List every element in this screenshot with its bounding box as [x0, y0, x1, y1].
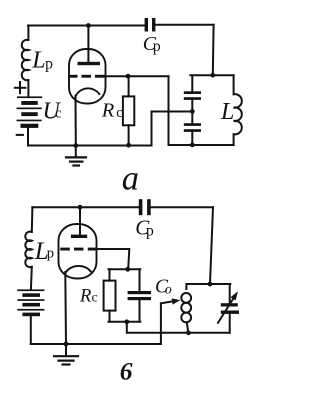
variable capacitor C6 b leads: [229, 284, 231, 333]
wire tank top b: [187, 283, 231, 285]
wire top rail a right: [155, 24, 213, 26]
inductor L1 (Lp) a: [22, 40, 29, 80]
battery U1 minus sign: [16, 134, 24, 136]
svg-text:c: c: [92, 291, 98, 306]
node tank bottom junction a: [190, 143, 195, 148]
wire coil to battery a: [27, 80, 29, 96]
node anode rail junction a: [86, 23, 91, 28]
node capacitor midpoint a: [191, 100, 193, 112]
wire cathode lead b: [64, 272, 67, 344]
tube V2 cathode arc b: [65, 266, 91, 273]
resistor R1 (Rc) a leads: [128, 76, 130, 145]
svg-text:L: L: [31, 48, 45, 74]
battery U1 (Uc) plus sign: [15, 82, 26, 93]
resistor R2 (Rc) b body: [104, 281, 116, 311]
inductor L3 (Lp) b: [25, 232, 31, 268]
wire top rail b: [32, 206, 138, 208]
inductor L2 (L) tank a: [234, 75, 242, 145]
wire grid drop to tank bottom a: [169, 76, 234, 145]
inductor L4 bottom stub b: [187, 322, 189, 333]
node grid junction a: [126, 74, 131, 79]
tube V1 anode bar a: [78, 62, 101, 65]
resistor R1 (Rc) a body: [123, 96, 134, 125]
tube V2 anode bar b: [71, 235, 87, 238]
node ground junction b: [64, 342, 69, 347]
battery U1 (Uc) plates: [17, 96, 43, 127]
wire bottom rail left a: [28, 145, 152, 147]
svg-text:R: R: [101, 99, 115, 121]
wire right drop a: [212, 25, 215, 75]
node RC bottom junction b: [124, 319, 129, 324]
inductor L4 tank coil b stub: [185, 284, 187, 289]
ground a: [75, 146, 77, 158]
svg-text:p: p: [146, 223, 154, 240]
wire RC top connector b: [109, 268, 141, 270]
wire tap arrow shaft b: [161, 301, 176, 304]
capacitor C5 (Co) b: [139, 269, 141, 322]
node tank top junction a: [210, 73, 215, 78]
wire battery to bottom rail a: [27, 128, 29, 146]
tube V2 grid dashes b: [60, 248, 97, 251]
tube V1 anode lead a: [87, 26, 89, 62]
inductor L4 tank coil b turns: [181, 293, 191, 303]
svg-text:6: 6: [120, 357, 133, 386]
wire top rail a: [28, 25, 145, 27]
tube V2 envelope b: [59, 224, 97, 279]
battery U2 plates b: [17, 289, 44, 316]
tube V1 envelope a: [69, 49, 106, 104]
node tank bottom junction b: [186, 330, 191, 335]
svg-text:R: R: [79, 286, 91, 306]
arrow head tap b: [172, 298, 181, 304]
capacitor C4 (Cp) coupling b: [139, 199, 151, 215]
wire grid to node a: [105, 75, 169, 77]
capacitor C3 tank lower a: [191, 112, 193, 124]
capacitor C1 (Cp) coupling a: [145, 18, 156, 32]
wire cathode lead a: [75, 96, 77, 146]
wire tank top a: [190, 74, 233, 76]
svg-text:L: L: [220, 99, 234, 125]
wire RC bottom connector b: [109, 321, 141, 323]
capacitor C2 tank upper a: [191, 75, 193, 91]
node anode rail junction b: [78, 205, 83, 210]
svg-text:o: o: [165, 283, 172, 298]
svg-text:c: c: [116, 105, 122, 121]
variable capacitor C6 b plates: [221, 303, 239, 314]
wire left rail top a: [27, 26, 29, 41]
wire left rail top b: [31, 207, 34, 232]
wire cathode tap riser b: [160, 303, 162, 344]
variable capacitor C6 b arrow: [218, 297, 234, 323]
node cathode ground junction a: [73, 143, 78, 148]
svg-text:a: a: [122, 160, 139, 198]
node resistor bottom a: [126, 143, 131, 148]
wire top rail b right: [151, 206, 213, 208]
tube V1 grid dashes a: [68, 75, 105, 78]
ground b: [65, 344, 67, 356]
tube V1 cathode arc a: [76, 88, 100, 96]
node tank top junction b: [208, 282, 213, 287]
wire battery to bottom rail b: [30, 316, 32, 344]
wire jog up to capacitor midpoint a: [152, 112, 193, 146]
resistor R2 (Rc) b leads: [109, 269, 111, 322]
svg-text:p: p: [47, 246, 54, 262]
wire coil to battery b: [30, 267, 33, 290]
wire bottom rail b: [31, 343, 161, 345]
wire RC bottom to tank bottom b: [127, 322, 230, 333]
svg-text:p: p: [45, 55, 53, 72]
tube V2 anode lead b: [79, 207, 81, 234]
svg-text:p: p: [153, 38, 161, 55]
wire right drop b: [210, 207, 213, 284]
wire grid to node b: [97, 249, 129, 269]
node grid RC junction b: [125, 267, 130, 272]
svg-text:c: c: [55, 105, 61, 121]
